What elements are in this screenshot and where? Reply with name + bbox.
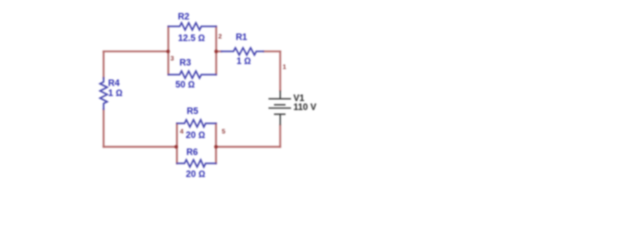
svg-text:1 Ω: 1 Ω (237, 56, 252, 66)
svg-text:R3: R3 (180, 57, 192, 67)
svg-text:3: 3 (170, 55, 174, 62)
svg-text:110 V: 110 V (293, 102, 316, 112)
svg-text:1 Ω: 1 Ω (108, 88, 123, 98)
svg-text:R5: R5 (187, 106, 199, 116)
svg-text:4: 4 (180, 129, 184, 136)
svg-text:20 Ω: 20 Ω (186, 169, 206, 179)
svg-text:1: 1 (283, 64, 287, 71)
svg-text:50 Ω: 50 Ω (175, 80, 195, 90)
svg-text:20 Ω: 20 Ω (186, 130, 206, 140)
svg-text:R6: R6 (186, 147, 198, 157)
svg-text:12.5 Ω: 12.5 Ω (178, 33, 205, 43)
svg-text:R2: R2 (178, 12, 190, 22)
svg-text:V1: V1 (293, 93, 304, 103)
svg-text:2: 2 (218, 33, 222, 40)
svg-text:R4: R4 (108, 78, 120, 88)
svg-text:R1: R1 (236, 32, 248, 42)
svg-text:5: 5 (222, 129, 226, 136)
